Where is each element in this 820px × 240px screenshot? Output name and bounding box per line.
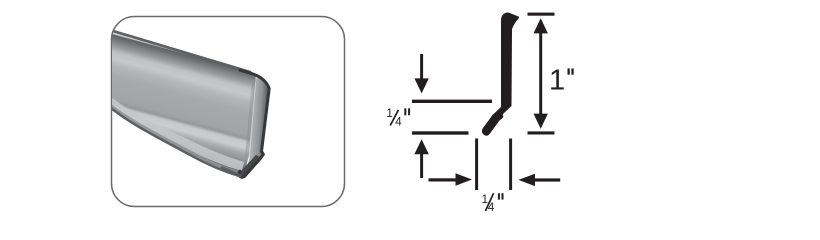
wall base strip rounded end shading (239, 75, 270, 178)
diagram: all strokes dark (386, 13, 573, 215)
svg-text:1: 1 (549, 65, 565, 97)
bottom left tick (475, 139, 478, 191)
strip top edge dark line (104, 28, 251, 72)
svg-text:1: 1 (386, 108, 392, 120)
wall base strip main face (104, 28, 256, 178)
bottom quarter-inch label (482, 193, 504, 214)
one-inch bottom tick (528, 131, 555, 134)
left-pointing arrow (533, 178, 560, 181)
right-pointing arrow (429, 178, 458, 181)
upper quarter line (412, 100, 492, 103)
one-inch double arrow (539, 31, 542, 116)
one-inch top tick (528, 13, 555, 16)
wall base strip toe dark wedge (240, 155, 260, 176)
strip bottom shadow edge (106, 105, 241, 177)
strip toe highlight band (follows bottom curve) (110, 102, 243, 167)
strip toe bottom shadow (222, 168, 241, 177)
svg-text:4: 4 (488, 202, 495, 214)
down arrow (to upper quarter line) (420, 54, 423, 80)
left quarter-inch label (386, 108, 410, 128)
bottom right tick (509, 139, 512, 191)
wall base strip end silhouette outline (239, 70, 269, 177)
one-inch label (549, 65, 574, 97)
lower quarter line (412, 131, 469, 134)
svg-text:4: 4 (395, 116, 402, 128)
profile cross-section (482, 13, 519, 136)
wall base strip fold shadow (247, 79, 255, 158)
product image rounded box (112, 17, 345, 207)
strip lower mid band (follows bottom curve) (111, 107, 241, 175)
up arrow (to lower quarter line) (420, 152, 423, 178)
